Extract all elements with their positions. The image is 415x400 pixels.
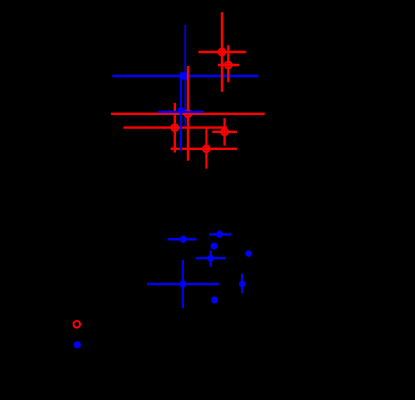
B7 y error bar <box>241 274 243 294</box>
B4 filled circle marker <box>207 255 214 262</box>
BSQ filled square marker <box>180 72 187 80</box>
B2 y error bar <box>218 231 220 238</box>
B4 x error bar <box>196 257 226 259</box>
blue data point B2 <box>209 231 231 238</box>
BC1 y error bar <box>180 80 182 151</box>
R3 x error bar <box>111 113 265 115</box>
B7 filled circle marker <box>239 281 246 288</box>
BC1 filled circle marker <box>178 107 185 114</box>
R5 x error bar <box>212 131 237 133</box>
B6 y error bar <box>182 260 184 308</box>
B1 x error bar <box>168 238 197 240</box>
B6 x error bar <box>147 283 219 285</box>
blue data point BC1 <box>158 80 204 151</box>
legend red open circle marker <box>74 321 81 328</box>
blue data point B5 (dot only) <box>245 250 252 257</box>
blue data point BSQ (square marker, long error bars) <box>112 25 258 127</box>
blue data point B6 <box>147 260 219 308</box>
red data point R1 <box>198 12 246 91</box>
R4 y error bar <box>174 103 176 153</box>
BSQ x error bar <box>112 75 258 77</box>
B1 y error bar <box>182 236 184 244</box>
BSQ y error bar <box>184 25 186 127</box>
R2 open circle marker <box>225 62 232 69</box>
R1 x error bar <box>198 51 246 53</box>
red data point R5 <box>212 118 237 146</box>
R1 open circle marker <box>219 49 226 56</box>
red data point R4 <box>123 103 226 153</box>
R2 y error bar <box>227 45 229 82</box>
B3 filled circle marker <box>211 243 218 250</box>
B8 filled circle marker <box>211 297 218 304</box>
B5 filled circle marker <box>245 250 252 257</box>
blue data point B8 (dot only) <box>211 297 218 304</box>
R6 y error bar <box>205 128 207 169</box>
B6 filled circle marker <box>179 281 186 288</box>
BC1 x error bar <box>158 111 204 113</box>
B1 filled circle marker <box>180 236 187 243</box>
blue data point B7 (vertical error bar only) <box>239 274 246 294</box>
legend blue filled circle marker <box>74 341 81 348</box>
blue data point B1 <box>168 236 197 244</box>
R2 x error bar <box>218 64 239 66</box>
red data point R6 <box>171 128 237 169</box>
blue data point B4 <box>196 250 226 266</box>
B4 y error bar <box>210 250 212 266</box>
R4 x error bar <box>123 126 226 128</box>
R1 y error bar <box>221 12 223 91</box>
R5 y error bar <box>223 118 225 146</box>
R6 open circle marker <box>203 145 210 152</box>
red data point R3 <box>111 66 265 161</box>
R6 x error bar <box>171 148 237 150</box>
blue data point B3 (dot only) <box>211 243 218 250</box>
red data point R2 <box>218 45 239 82</box>
R3 open circle marker <box>185 110 192 117</box>
B2 x error bar <box>209 233 231 235</box>
R3 y error bar <box>187 66 189 161</box>
B2 filled circle marker <box>216 231 223 238</box>
R4 open circle marker <box>171 124 178 131</box>
R5 open circle marker <box>221 128 228 135</box>
